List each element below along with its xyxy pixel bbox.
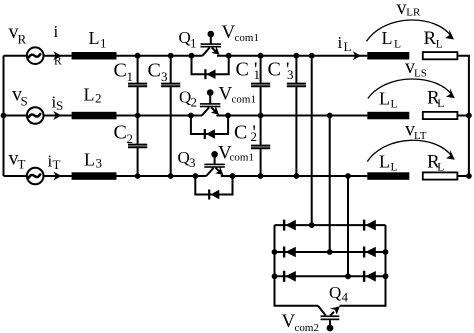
svg-text:2: 2 bbox=[95, 91, 102, 106]
svg-text:L: L bbox=[391, 162, 398, 174]
svg-text:S: S bbox=[21, 94, 28, 109]
svg-text:T: T bbox=[18, 157, 26, 172]
svg-text:L: L bbox=[379, 89, 390, 109]
svg-text:L: L bbox=[437, 98, 444, 110]
svg-text:C: C bbox=[148, 60, 161, 82]
svg-text:3: 3 bbox=[161, 69, 168, 84]
svg-text:Q: Q bbox=[329, 283, 341, 302]
svg-text:V: V bbox=[219, 84, 233, 105]
svg-text:L: L bbox=[394, 39, 401, 51]
svg-text:1: 1 bbox=[100, 35, 107, 50]
svg-text:LT: LT bbox=[414, 130, 427, 142]
svg-text:L: L bbox=[344, 39, 352, 54]
svg-text:L: L bbox=[89, 28, 100, 48]
svg-text:C: C bbox=[114, 60, 127, 82]
svg-text:1: 1 bbox=[254, 67, 261, 82]
svg-text:V: V bbox=[282, 311, 296, 332]
svg-text:R: R bbox=[18, 32, 27, 47]
svg-text:1: 1 bbox=[127, 69, 134, 84]
svg-text:L: L bbox=[436, 39, 443, 51]
svg-text:com2: com2 bbox=[295, 322, 319, 333]
svg-text:i: i bbox=[54, 22, 59, 41]
svg-text:2: 2 bbox=[251, 129, 258, 144]
svg-text:v: v bbox=[397, 0, 407, 19]
svg-text:V: V bbox=[222, 22, 236, 43]
svg-text:3: 3 bbox=[96, 155, 103, 170]
svg-text:Q: Q bbox=[179, 88, 191, 107]
svg-text:2: 2 bbox=[191, 95, 198, 110]
svg-text:4: 4 bbox=[342, 290, 349, 305]
svg-text:LS: LS bbox=[414, 68, 427, 80]
svg-text:L: L bbox=[84, 85, 95, 105]
svg-text:S: S bbox=[56, 98, 63, 113]
svg-text:L: L bbox=[84, 150, 95, 170]
svg-text:com1: com1 bbox=[232, 94, 256, 106]
svg-text:LR: LR bbox=[406, 6, 421, 18]
svg-text:2: 2 bbox=[127, 131, 134, 146]
svg-text:i: i bbox=[338, 33, 343, 52]
svg-text:R: R bbox=[424, 28, 437, 49]
svg-text:L: L bbox=[379, 152, 390, 172]
svg-text:C: C bbox=[114, 122, 127, 144]
svg-text:Q: Q bbox=[179, 28, 191, 47]
svg-text:3: 3 bbox=[287, 67, 294, 82]
svg-text:com1: com1 bbox=[235, 32, 259, 44]
svg-text:L: L bbox=[391, 99, 398, 111]
svg-text:T: T bbox=[53, 157, 61, 172]
svg-text:Q: Q bbox=[178, 148, 190, 167]
svg-text:com1: com1 bbox=[230, 152, 254, 164]
svg-text:L: L bbox=[382, 28, 393, 48]
svg-text:1: 1 bbox=[190, 36, 197, 51]
svg-text:L: L bbox=[437, 162, 444, 174]
svg-text:3: 3 bbox=[189, 155, 196, 170]
svg-text:R: R bbox=[54, 56, 62, 68]
